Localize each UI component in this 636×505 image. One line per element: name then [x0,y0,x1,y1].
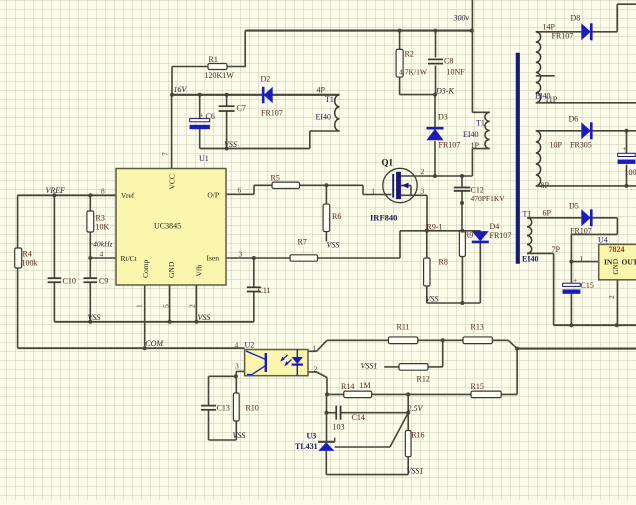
svg-text:D3: D3 [438,113,448,122]
svg-text:R14: R14 [341,382,354,391]
svg-text:TL431: TL431 [295,442,318,451]
svg-text:120K1W: 120K1W [205,71,235,80]
svg-text:T1: T1 [476,119,485,128]
svg-text:VCC: VCC [168,174,177,189]
svg-text:VSS: VSS [327,241,340,250]
svg-text:R5: R5 [271,174,280,183]
svg-text:Isen: Isen [207,254,220,263]
svg-text:10K: 10K [96,223,110,232]
svg-text:R9: R9 [464,231,473,240]
svg-text:C6: C6 [206,112,215,121]
svg-text:D5: D5 [569,201,579,210]
svg-text:GND: GND [612,259,620,275]
svg-text:C7: C7 [237,104,246,113]
svg-text:4: 4 [235,340,239,349]
svg-text:7P: 7P [552,245,561,254]
svg-text:U4: U4 [598,236,608,245]
svg-text:VSS: VSS [426,295,439,304]
svg-text:+: + [200,112,204,120]
svg-text:C11: C11 [258,286,271,295]
svg-text:7824: 7824 [609,245,625,254]
svg-text:C13: C13 [217,404,230,413]
svg-text:T1: T1 [523,210,532,219]
svg-text:8P: 8P [541,181,550,190]
svg-text:OUT: OUT [622,258,636,267]
svg-text:1: 1 [371,186,375,195]
svg-text:VSS: VSS [233,431,246,440]
svg-text:1M: 1M [360,381,371,390]
svg-text:470PF1KV: 470PF1KV [471,194,506,203]
svg-text:IRF840: IRF840 [370,213,397,223]
svg-text:Rt/Ct: Rt/Ct [121,254,138,263]
svg-text:+: + [623,145,627,153]
svg-text:R15: R15 [471,382,484,391]
svg-text:UC3845: UC3845 [154,222,181,231]
svg-text:VREF: VREF [46,186,66,195]
svg-text:EI40: EI40 [316,113,332,122]
svg-text:VSS1: VSS1 [361,361,378,370]
svg-text:O/P: O/P [207,191,219,200]
svg-text:R3: R3 [96,214,105,223]
svg-text:~40kHz: ~40kHz [89,240,113,249]
svg-text:4: 4 [100,250,104,259]
svg-text:C15: C15 [581,281,594,290]
svg-text:R12: R12 [417,375,430,384]
svg-text:4P: 4P [317,86,326,95]
svg-text:R9-1: R9-1 [427,222,443,231]
svg-text:U3: U3 [307,432,317,441]
svg-text:300v: 300v [453,14,470,23]
svg-text:D8: D8 [571,13,581,22]
svg-text:D2: D2 [261,75,271,84]
svg-text:16V: 16V [174,85,188,94]
svg-text:D3-K: D3-K [435,87,454,96]
svg-text:VSS1: VSS1 [407,466,424,475]
svg-text:3: 3 [235,362,239,371]
svg-text:Comp: Comp [141,259,150,278]
svg-text:1: 1 [313,343,317,352]
svg-text:R11: R11 [397,323,410,332]
svg-text:Vref: Vref [121,191,135,200]
svg-text:EI40: EI40 [522,255,538,264]
svg-text:C10: C10 [63,277,76,286]
svg-text:100: 100 [625,168,636,177]
svg-text:U2: U2 [245,340,255,349]
svg-text:EI40: EI40 [463,130,479,139]
svg-text:COM: COM [145,339,164,348]
svg-text:R2: R2 [405,50,414,59]
svg-text:D6: D6 [569,114,579,123]
svg-text:1: 1 [580,254,584,263]
svg-text:11P: 11P [545,95,558,104]
svg-text:R16: R16 [411,431,424,440]
svg-text:5: 5 [162,304,171,308]
svg-text:1: 1 [135,304,144,308]
svg-text:R4: R4 [23,250,32,259]
svg-text:FR305: FR305 [570,141,592,150]
svg-text:2: 2 [421,167,425,176]
svg-text:8: 8 [101,187,105,196]
svg-text:C9: C9 [99,277,108,286]
svg-text:3: 3 [421,186,425,195]
svg-text:VSS: VSS [224,140,237,149]
svg-text:R8: R8 [439,258,448,267]
svg-text:3: 3 [239,250,243,259]
svg-text:6P: 6P [543,208,552,217]
svg-text:FR107: FR107 [439,141,461,150]
svg-text:Vfb: Vfb [195,265,204,277]
svg-text:2: 2 [607,295,616,299]
svg-text:FR107: FR107 [552,32,574,41]
svg-text:R7: R7 [298,238,307,247]
svg-text:FR107: FR107 [261,109,283,118]
svg-text:VSS: VSS [88,313,101,322]
svg-text:GND: GND [167,261,176,278]
svg-text:10NF: 10NF [447,68,466,77]
svg-text:R1: R1 [209,55,218,64]
svg-text:T1: T1 [325,95,334,104]
svg-text:FR107: FR107 [490,231,512,240]
svg-text:4.7K/1W: 4.7K/1W [399,68,428,77]
svg-text:+: + [573,277,577,285]
svg-text:C14: C14 [352,413,365,422]
svg-text:103: 103 [333,422,345,431]
svg-text:2: 2 [314,365,318,374]
svg-text:2: 2 [188,304,197,308]
svg-text:D4: D4 [490,222,500,231]
svg-text:2.5V: 2.5V [408,404,424,413]
svg-text:14P: 14P [543,23,556,32]
svg-text:VSS: VSS [198,313,211,322]
svg-text:6: 6 [238,186,242,195]
svg-text:R6: R6 [332,212,341,221]
svg-text:R10: R10 [246,404,259,413]
svg-text:100k: 100k [22,259,38,268]
svg-text:FR107: FR107 [570,227,592,236]
svg-text:Q1: Q1 [382,158,394,168]
svg-text:C8: C8 [444,57,453,66]
svg-text:10P: 10P [550,141,563,150]
svg-text:R13: R13 [471,323,484,332]
svg-text:1P: 1P [471,141,480,150]
svg-text:7: 7 [161,152,170,156]
svg-text:U1: U1 [199,154,209,163]
